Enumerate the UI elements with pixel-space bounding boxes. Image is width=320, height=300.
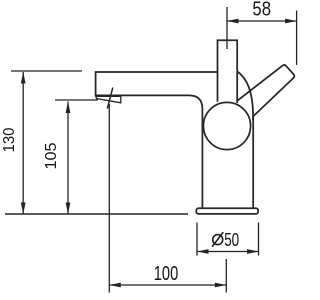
wire right body edge (252, 116, 254, 208)
svg-text:100: 100 (154, 263, 179, 285)
dimension diameter 50 (197, 223, 259, 256)
node diameter symbol (212, 232, 223, 246)
svg-text:105: 105 (43, 142, 60, 169)
svg-text:130: 130 (1, 127, 18, 152)
wire riser pipe (218, 40, 238, 103)
dimension 100 (109, 104, 226, 293)
node lever handle (237, 65, 294, 117)
dimension 58 (227, 7, 297, 65)
svg-text:58: 58 (252, 0, 271, 20)
node aerator outlet (96, 96, 121, 103)
faucet outline group (96, 40, 295, 214)
node base flange (196, 208, 258, 214)
wire mounting surface baseline (5, 213, 188, 215)
dimension 105 (55, 100, 98, 214)
wire spout outline (96, 72, 218, 208)
wire aerator slash (107, 88, 113, 109)
dimension 130 (11, 71, 82, 214)
node body ball (203, 102, 250, 149)
wire handle boss arc (237, 72, 253, 121)
svg-text:50: 50 (224, 230, 239, 250)
